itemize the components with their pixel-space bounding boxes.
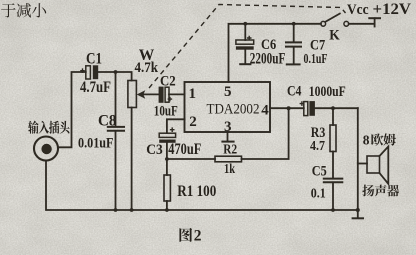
label C4 (287, 83, 302, 99)
wire pin 5 to +V rail (229, 24, 322, 82)
svg-text:C7: C7 (310, 37, 326, 53)
junction C7 (292, 22, 296, 26)
label Vcc +12V (347, 1, 412, 18)
wire C4 to speaker (358, 108, 367, 210)
switch K (321, 14, 375, 27)
+12V terminal (369, 18, 380, 26)
speaker 8 ohm (367, 147, 388, 184)
input jack connector (34, 137, 58, 161)
label C8 (98, 113, 117, 130)
label C3 (146, 142, 163, 158)
label 0.1 (311, 187, 326, 202)
junction W bottom (130, 208, 134, 212)
label 470uF (168, 141, 201, 158)
svg-text:2: 2 (189, 114, 197, 130)
op-amp IC U1 TDA2002 (185, 82, 271, 132)
svg-text:R1 100: R1 100 (177, 183, 216, 200)
potentiometer W 4.7k (128, 81, 159, 211)
capacitor C2 10uF (electrolytic) (159, 87, 173, 103)
label R3 (311, 125, 326, 141)
label 0.01uF (78, 135, 114, 151)
junction R3 top (331, 106, 335, 110)
pin 5 (224, 84, 232, 100)
capacitor C1 4.7uF (electrolytic) (80, 65, 98, 79)
pin 2 (189, 114, 197, 130)
caption 图2 (179, 228, 201, 245)
label 10uF (154, 104, 178, 120)
ground symbol (353, 210, 363, 218)
svg-text:1000uF: 1000uF (309, 84, 346, 100)
junction C5 bottom (331, 208, 335, 212)
svg-text:C5: C5 (312, 163, 327, 179)
label 扬声器 (362, 185, 399, 197)
label 输入插头 (28, 121, 70, 134)
label C7 (310, 37, 326, 53)
label R2 (223, 143, 237, 158)
svg-text:4: 4 (261, 103, 269, 119)
svg-text:1k: 1k (224, 162, 235, 177)
svg-text:470uF: 470uF (168, 141, 201, 158)
svg-text:+12V: +12V (373, 1, 412, 18)
wire C1 to potentiometer W (98, 72, 131, 81)
svg-text:C8: C8 (98, 113, 117, 130)
capacitor C7 0.1uF (286, 24, 301, 65)
svg-text:10uF: 10uF (154, 104, 178, 120)
label C1 (86, 50, 102, 67)
svg-text:2200uF: 2200uF (250, 50, 285, 67)
pin 1 (189, 86, 197, 102)
wire C2 to pin 1 (169, 93, 185, 95)
svg-text:C1: C1 (86, 50, 102, 67)
capacitor C4 1000uF (electrolytic) (300, 101, 358, 116)
svg-text:K: K (329, 28, 340, 44)
svg-text:C4: C4 (287, 83, 302, 99)
label R1 100 (177, 183, 216, 200)
svg-text:0.01uF: 0.01uF (78, 135, 114, 151)
wire jack to ground rail (46, 161, 116, 211)
label 8欧姆 (363, 132, 396, 147)
svg-text:4.7k: 4.7k (135, 60, 159, 76)
svg-text:1: 1 (189, 86, 197, 102)
label K (329, 28, 340, 44)
wire jack to C1 (58, 72, 86, 147)
wire pin 4 output (270, 107, 304, 109)
svg-text:0.1: 0.1 (311, 187, 326, 202)
svg-text:8: 8 (363, 132, 370, 147)
svg-text:Vcc: Vcc (347, 2, 369, 18)
label W (139, 47, 155, 64)
label 0.1uF (304, 52, 328, 67)
resistor R1 100 (164, 175, 170, 210)
capacitor C3 470uF (electrolytic) (159, 127, 175, 175)
capacitor C8 0.01uF (108, 72, 124, 210)
junction R2 left (165, 157, 169, 161)
svg-text:2: 2 (194, 228, 202, 245)
svg-text:TDA2002: TDA2002 (207, 102, 260, 118)
label 4.7 (310, 139, 325, 154)
svg-text:C3: C3 (146, 142, 163, 158)
pin 4 (261, 103, 269, 119)
svg-text:5: 5 (224, 84, 232, 100)
junction C6 (243, 22, 247, 26)
label 1k (224, 162, 235, 177)
label 4.7uF (80, 79, 111, 96)
wire pin 2 to C3 (167, 119, 185, 133)
svg-text:4.7: 4.7 (310, 139, 325, 154)
note text 于减小 (1, 3, 46, 17)
ground pin 3 (222, 132, 233, 142)
svg-text:0.1uF: 0.1uF (304, 52, 328, 67)
label C5 (312, 163, 327, 179)
capacitor C6 2200uF (electrolytic) (236, 24, 254, 64)
dashed leader line (149, 5, 346, 89)
junction C8 top (114, 70, 118, 74)
label C6 (261, 37, 277, 53)
junction speaker ground (356, 208, 360, 212)
resistor R2 1k (167, 108, 289, 162)
pin 3 (224, 119, 232, 135)
label C2 (160, 74, 176, 90)
svg-text:R2: R2 (223, 143, 237, 158)
junction C8 bottom (114, 208, 118, 212)
junction feedback node (287, 106, 291, 110)
label 4.7k (135, 60, 159, 76)
svg-text:C2: C2 (160, 74, 176, 90)
junction R1 bottom (165, 208, 169, 212)
ground rail wire (116, 209, 358, 211)
capacitor C5 0.1 (324, 179, 343, 210)
label 2200uF (250, 50, 285, 67)
resistor R3 4.7 (330, 108, 336, 178)
label 1000uF (309, 84, 346, 100)
svg-text:4.7uF: 4.7uF (80, 79, 111, 96)
